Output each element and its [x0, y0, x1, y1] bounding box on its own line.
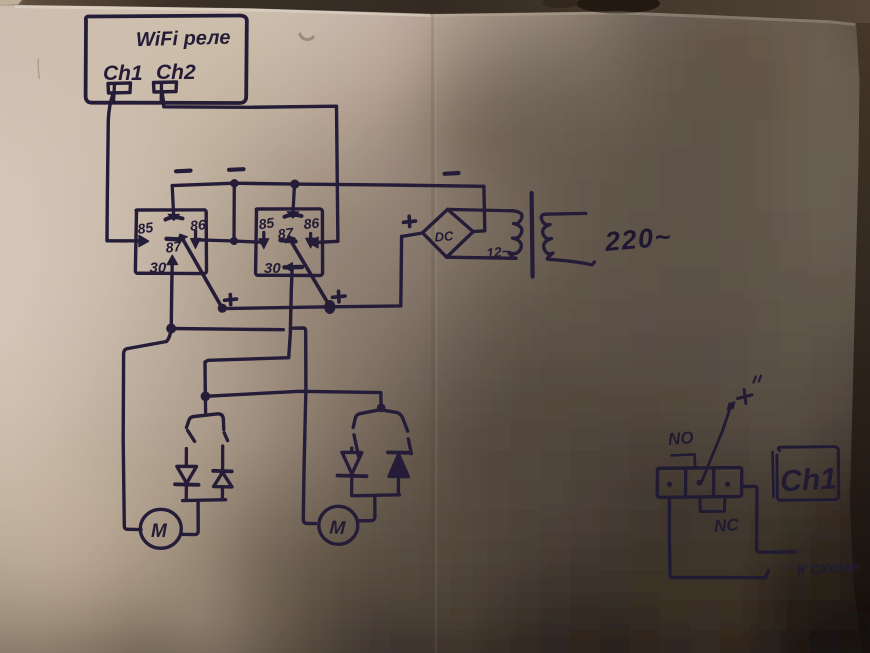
pin 85 arrowhead of relay K1 — [139, 236, 149, 247]
minus polarity tick above bus left — [176, 169, 191, 174]
pin 85 down-arrow of relay K2 — [259, 233, 269, 249]
label NO — [667, 428, 694, 449]
relay K1 coil pin arrow (top) — [166, 214, 183, 220]
svg-text:85: 85 — [136, 219, 154, 237]
svg-text:WiFi реле: WiFi реле — [136, 27, 231, 51]
Ch1 annotation box — [777, 447, 839, 501]
terminal block divider 2 — [712, 468, 716, 497]
switch arm 87-30 of relay K1 (to + node) — [178, 234, 223, 308]
pin label 86 of K1 — [189, 216, 206, 234]
transformer T1 core bar — [532, 193, 533, 277]
pin label 30 of K1 — [150, 260, 167, 277]
wire diode D4 to rail — [397, 477, 400, 495]
actuator arm from common contact toward "+" — [702, 404, 732, 482]
label Ch1 in annotation box — [779, 462, 837, 498]
wire bus left end down to relay K1 coil pin — [172, 186, 173, 215]
minus polarity tick above rectifier corner — [445, 171, 459, 176]
svg-text:M: M — [329, 518, 347, 540]
pin 87 contact bar of K1 — [167, 237, 184, 242]
NC terminal bracket below block — [700, 498, 725, 512]
svg-text:Ch1: Ch1 — [779, 462, 837, 498]
relay K2 body — [256, 209, 323, 276]
wire diode D3 to rail — [350, 477, 353, 496]
table strip along right edge — [850, 23, 870, 653]
relay K2 coil pin arrow (top) — [285, 212, 302, 219]
switch arm 87-30 of relay K2 (to + node) — [286, 236, 331, 307]
transformer T1 secondary winding 12V — [509, 211, 522, 259]
NO terminal bracket — [672, 454, 696, 466]
junction node at 86-85 rail — [230, 237, 238, 245]
wire pair node down to switch bracket — [204, 396, 208, 412]
paper top edge highlight — [15, 7, 430, 16]
wire left tall feed from K1-30 junction down to motor M1 — [123, 329, 171, 530]
wire minus bus corner down to bridge right vertex — [473, 186, 485, 231]
plus polarity mark near rectifier + corner — [404, 216, 416, 226]
plus rail wire joining both switch-arm nodes to rectifier + — [222, 237, 402, 309]
table strip along top edge of photo — [0, 0, 870, 26]
switch S2a left blade — [354, 435, 359, 456]
switch S2a right blade — [408, 439, 411, 454]
pin 30 up-arrow of relay K1 — [167, 255, 178, 284]
pin label 85 of K1 — [136, 219, 154, 237]
NC contact dot — [725, 482, 730, 487]
switch S1a left blade — [188, 431, 195, 442]
faint fold crease down the middle of the paper — [432, 14, 437, 653]
wire motor M1 right side up to diode rail — [181, 501, 198, 535]
svg-text:30: 30 — [264, 260, 281, 277]
bridge rectifier DC (diamond) — [423, 209, 474, 257]
wire primary top lead — [545, 212, 586, 216]
WiFi relay module box U1 — [86, 15, 247, 103]
junction node on bus (to pins 86/85) — [230, 179, 238, 187]
label Ch2 (module channel 2) — [156, 61, 196, 84]
label M of motor M2 — [329, 518, 347, 540]
wire primary bottom lead — [548, 259, 594, 265]
label к схеме — [797, 556, 861, 578]
transformer T1 primary winding 220V — [541, 214, 553, 259]
pin label 87 of K1 — [165, 238, 184, 256]
label Ch1 (module channel 1) — [103, 62, 143, 85]
minus supply bus from relay coils to rectifier — [172, 183, 484, 186]
right pair top junction node — [377, 404, 386, 413]
label DC inside bridge — [434, 228, 454, 244]
Ch1 box left accent stroke — [773, 452, 774, 497]
wire motor M2 right side up to diode rail — [358, 498, 375, 521]
junction node + of relay K2 arm — [324, 300, 335, 314]
label 12~ of secondary — [485, 243, 510, 261]
wire K1-30 junction to long right drop (with crossing gap) — [171, 329, 283, 330]
svg-text:30: 30 — [150, 260, 167, 277]
label 220~ mains — [603, 221, 673, 257]
wire bus to relay K2 coil pin — [293, 184, 295, 212]
pin 86 down-arrow of relay K2 — [306, 234, 316, 249]
junction node on bus at relay K2 coil — [290, 180, 299, 189]
bottom rail of left diode pair — [183, 498, 226, 502]
left pair top junction node — [201, 392, 211, 402]
wire bridge top vertex to transformer secondary top (crosses minus drop) — [448, 209, 513, 210]
pin label 85 of K2 — [258, 214, 276, 232]
motor M1 circle — [140, 509, 181, 548]
svg-text:NO: NO — [667, 428, 694, 449]
wire NO terminal down and right (к схеме lower lead) — [669, 498, 768, 578]
wire long right drop down to motor M2 — [303, 390, 315, 524]
svg-text:к схеме: к схеме — [797, 556, 861, 578]
svg-text:M: M — [151, 521, 168, 542]
common contact dot — [696, 480, 702, 486]
minus polarity tick above bus middle — [229, 167, 244, 172]
switch S1a right blade — [224, 433, 227, 441]
small crease mark near left edge — [38, 58, 39, 79]
wire relay K1 pin 86 to junction to relay K2 pin 85 — [197, 240, 262, 242]
wire relay K2 pin 30 staircase down-left to left motor pair node — [205, 290, 291, 393]
diode D3 (cathode down) outline — [338, 452, 367, 476]
wire relay K1 pin 30 down to junction — [169, 284, 173, 328]
svg-text:86: 86 — [189, 216, 206, 234]
junction node + of relay K1 arm — [218, 304, 227, 313]
pin 86 down-arrow of relay K1 — [191, 231, 201, 249]
label NC — [713, 515, 740, 536]
svg-text:DC: DC — [434, 228, 454, 244]
wire NC terminal right then down (к схеме upper lead) — [742, 486, 796, 552]
relay contact detail: terminal block outline — [657, 468, 742, 498]
pin 86 arrowhead of relay K2 — [309, 237, 318, 247]
bottom rail of right diode pair — [354, 495, 400, 496]
dark shadow bottom-right corner — [790, 605, 870, 653]
pin 30 arrow of relay K2 — [284, 263, 302, 291]
NO contact dot — [667, 482, 672, 487]
wire Ch2 terminal to relay K2 pin 86 (crosses minus bus) — [162, 92, 338, 242]
junction node under relay K1 pin 30 — [166, 324, 176, 334]
label "+" with quote marks (coil drive) — [728, 376, 761, 410]
wire blade to diode D1 — [185, 449, 188, 467]
wire bridge bottom vertex to transformer secondary bottom — [447, 257, 516, 258]
wire blade to diode D3 — [350, 448, 353, 452]
limit switch S2a bracket (right motor) — [353, 410, 408, 431]
label "WiFi реле" — [136, 27, 231, 51]
pin label 86 of K2 — [303, 215, 320, 233]
punched hole near top edge — [300, 21, 316, 40]
wire diode D1 to bottom rail — [185, 485, 188, 500]
svg-text:NC: NC — [713, 515, 740, 536]
terminal of Ch2 — [154, 82, 177, 102]
wire diode D2 to bottom rail — [221, 487, 224, 500]
svg-text:220~: 220~ — [603, 221, 673, 257]
wire rectifier + corner to bridge left vertex — [402, 233, 423, 237]
diode D2 (cathode up) outline — [213, 471, 232, 487]
relay K1 body — [135, 210, 206, 274]
wire blade to diode D2 — [221, 446, 224, 471]
pin 87 contact bar of K2 — [281, 240, 296, 241]
svg-text:12~: 12~ — [485, 243, 510, 261]
pin label 87 of K2 — [277, 224, 296, 242]
wire Ch1 terminal to relay K1 pin 85 — [107, 94, 140, 241]
motor M2 circle — [319, 506, 358, 544]
wire long horizontal from left pair node to right pair — [205, 391, 381, 405]
diode D4 (cathode up) outline — [388, 452, 410, 476]
pin label 30 of K2 — [264, 260, 281, 277]
svg-text:85: 85 — [258, 214, 276, 232]
terminal of Ch1 — [108, 83, 131, 103]
diode D1 (cathode down) outline — [175, 466, 199, 485]
terminal block divider 1 — [684, 468, 688, 497]
svg-text:86: 86 — [303, 215, 320, 233]
label M of motor M1 — [151, 521, 168, 542]
plus polarity mark near K1 arm node — [225, 295, 237, 305]
wire bus junction down to 86-85 rail — [232, 183, 236, 241]
plus polarity mark near K2 arm node — [333, 291, 346, 302]
limit switch S1a bracket (left motor) — [187, 414, 224, 430]
